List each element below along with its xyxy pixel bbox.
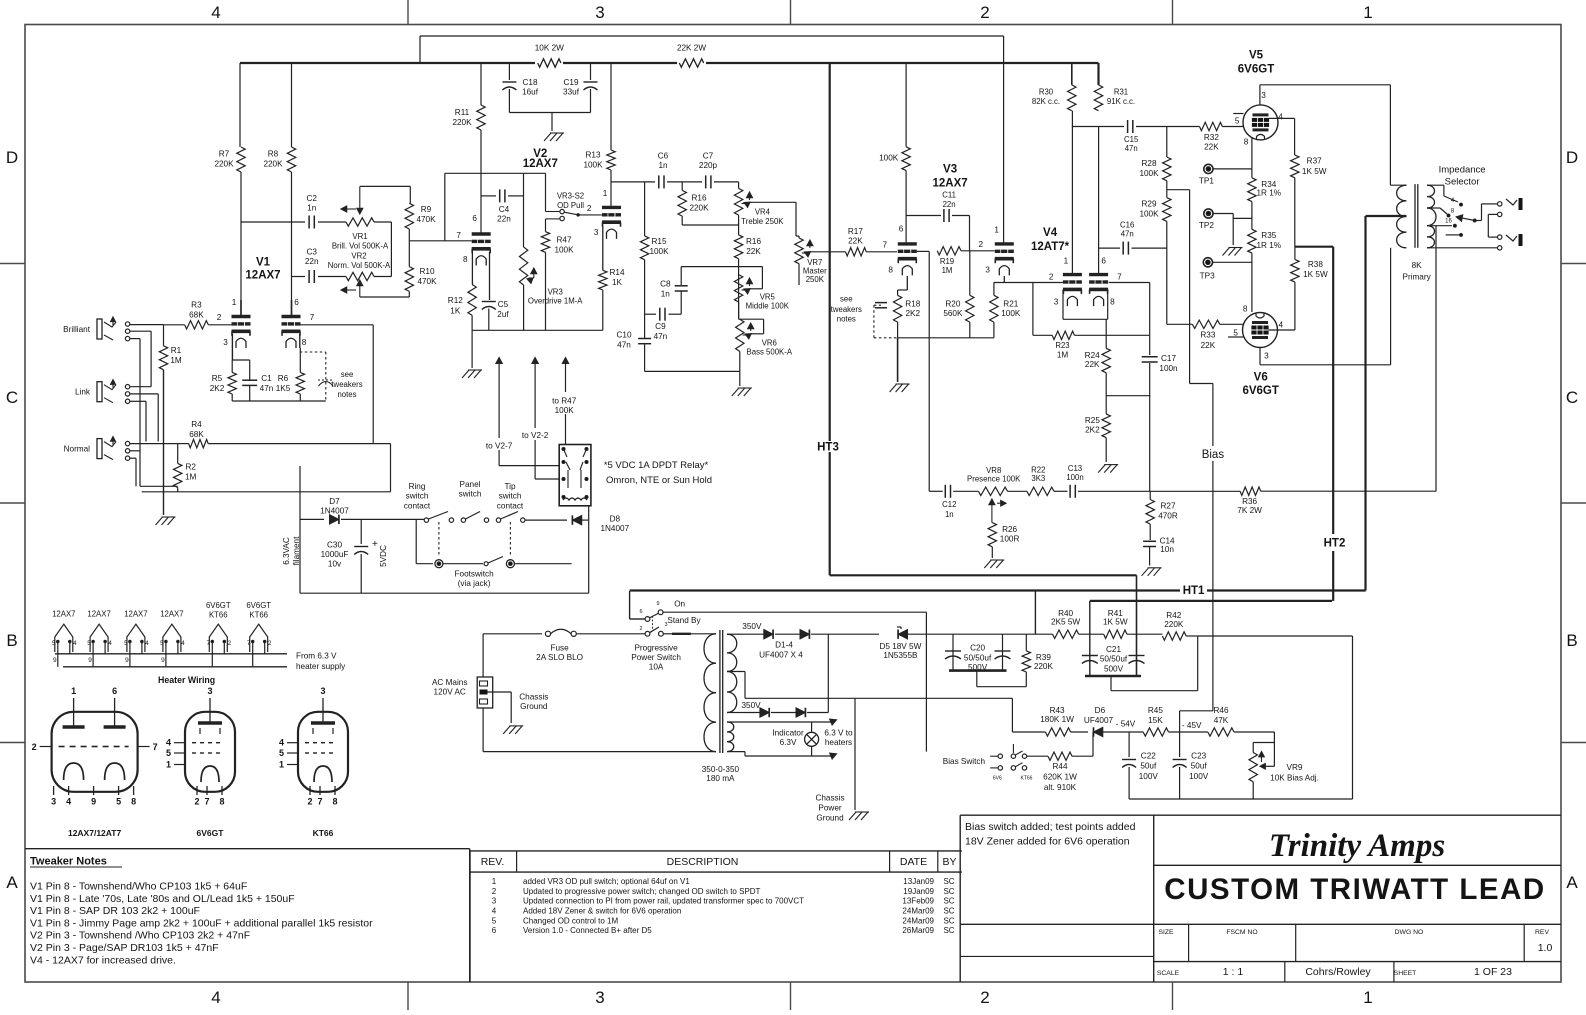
svg-text:1R 1%: 1R 1% (1257, 189, 1282, 198)
svg-text:V4: V4 (1043, 227, 1058, 239)
svg-text:KT66: KT66 (313, 828, 334, 838)
svg-text:5: 5 (166, 748, 171, 758)
svg-text:R46: R46 (1213, 706, 1228, 715)
svg-text:added VR3 OD pull switch; opti: added VR3 OD pull switch; optional 64uf … (523, 877, 690, 886)
svg-text:Chassis: Chassis (519, 693, 548, 702)
svg-text:5VDC: 5VDC (379, 545, 388, 567)
svg-text:C6: C6 (658, 152, 669, 161)
svg-text:R26: R26 (1002, 525, 1017, 534)
svg-text:33uf: 33uf (563, 88, 580, 97)
svg-text:16uf: 16uf (522, 88, 539, 97)
svg-text:1: 1 (279, 760, 284, 770)
svg-text:C19: C19 (563, 78, 578, 87)
svg-text:1: 1 (232, 298, 237, 307)
svg-text:220K: 220K (1034, 662, 1054, 671)
svg-text:1: 1 (994, 226, 999, 235)
svg-text:12AX7: 12AX7 (160, 610, 183, 619)
svg-text:4: 4 (73, 640, 77, 647)
svg-text:3: 3 (320, 686, 325, 696)
svg-text:47n: 47n (260, 384, 274, 393)
svg-text:3: 3 (595, 988, 604, 1007)
svg-text:4: 4 (181, 640, 185, 647)
svg-text:C7: C7 (703, 152, 714, 161)
svg-text:1: 1 (1363, 988, 1372, 1007)
svg-text:Changed OD control to 1M: Changed OD control to 1M (523, 916, 618, 925)
svg-text:6: 6 (472, 214, 477, 223)
svg-text:R12: R12 (448, 296, 463, 305)
svg-text:SC: SC (943, 897, 954, 906)
svg-text:- 45V: - 45V (1182, 721, 1202, 730)
svg-text:100K: 100K (1139, 169, 1159, 178)
svg-text:C: C (1566, 388, 1578, 407)
svg-text:V5: V5 (1249, 50, 1264, 62)
svg-text:TP3: TP3 (1200, 271, 1215, 280)
svg-text:26Mar09: 26Mar09 (902, 926, 934, 935)
svg-text:alt. 910K: alt. 910K (1044, 783, 1077, 792)
svg-text:3: 3 (664, 622, 667, 628)
svg-text:1: 1 (1363, 3, 1372, 22)
svg-text:R2: R2 (185, 463, 196, 472)
svg-text:8: 8 (131, 797, 136, 807)
svg-text:Updated connection to PI from: Updated connection to PI from power rail… (523, 897, 804, 906)
svg-text:2: 2 (32, 742, 37, 752)
svg-text:SC: SC (943, 877, 954, 886)
svg-text:8: 8 (332, 797, 337, 807)
svg-text:R37: R37 (1307, 157, 1322, 166)
svg-text:3: 3 (492, 897, 497, 906)
svg-text:SCALE: SCALE (1157, 970, 1180, 977)
svg-text:5: 5 (160, 640, 164, 647)
svg-text:7: 7 (247, 640, 251, 647)
svg-text:47n: 47n (1121, 229, 1134, 238)
svg-text:R16: R16 (746, 237, 761, 246)
svg-text:R29: R29 (1141, 200, 1156, 209)
svg-text:C16: C16 (1120, 220, 1134, 229)
svg-text:Bias: Bias (1202, 449, 1225, 461)
svg-text:C9: C9 (655, 322, 666, 331)
svg-text:8: 8 (463, 255, 468, 264)
svg-text:250K: 250K (806, 275, 825, 284)
svg-text:REV.: REV. (481, 856, 505, 868)
svg-text:350-0-350: 350-0-350 (702, 765, 740, 774)
svg-text:620K 1W: 620K 1W (1043, 773, 1077, 782)
svg-text:+: + (372, 539, 378, 550)
svg-text:R30: R30 (1039, 87, 1054, 96)
svg-text:Overdrive 1M-A: Overdrive 1M-A (528, 297, 583, 306)
svg-text:- 54V: - 54V (1116, 719, 1136, 728)
svg-text:1n: 1n (307, 204, 317, 213)
svg-text:heater supply: heater supply (296, 662, 346, 671)
svg-text:Panel: Panel (460, 480, 481, 489)
svg-text:C2: C2 (306, 194, 317, 203)
svg-text:12AX7/12AT7: 12AX7/12AT7 (68, 828, 122, 838)
svg-text:B: B (1566, 631, 1577, 650)
svg-text:82K c.c.: 82K c.c. (1032, 97, 1060, 106)
svg-text:R43: R43 (1050, 706, 1065, 715)
svg-text:VR2: VR2 (351, 252, 366, 261)
svg-text:1n: 1n (661, 290, 671, 299)
svg-text:Fuse: Fuse (550, 643, 569, 652)
svg-text:R27: R27 (1160, 501, 1175, 510)
svg-text:22n: 22n (305, 257, 319, 266)
svg-text:D7: D7 (329, 497, 340, 506)
svg-text:9: 9 (91, 797, 96, 807)
svg-text:to V2-2: to V2-2 (522, 431, 549, 440)
svg-text:180 mA: 180 mA (706, 774, 735, 783)
svg-text:C15: C15 (1124, 135, 1139, 144)
svg-text:1: 1 (492, 877, 497, 886)
svg-text:6: 6 (492, 926, 497, 935)
svg-text:switch: switch (459, 490, 482, 499)
svg-text:2: 2 (980, 988, 989, 1007)
svg-text:5: 5 (492, 916, 497, 925)
svg-text:3: 3 (51, 797, 56, 807)
svg-text:560K: 560K (943, 309, 963, 318)
svg-text:Primary: Primary (1402, 272, 1431, 281)
svg-text:13Jan09: 13Jan09 (903, 877, 934, 886)
svg-text:R25: R25 (1085, 416, 1100, 425)
svg-text:7: 7 (317, 797, 322, 807)
svg-text:9: 9 (88, 657, 92, 664)
svg-text:5: 5 (1233, 328, 1238, 337)
svg-text:10v: 10v (328, 559, 342, 568)
svg-text:(via jack): (via jack) (458, 579, 491, 588)
svg-text:C8: C8 (660, 280, 671, 289)
svg-text:Progressive: Progressive (634, 643, 678, 652)
svg-text:DATE: DATE (900, 856, 927, 868)
svg-text:HT2: HT2 (1324, 538, 1346, 550)
svg-text:Presence 100K: Presence 100K (967, 475, 1021, 484)
svg-text:V4 - 12AX7 for increased drive: V4 - 12AX7 for increased drive. (30, 954, 176, 966)
svg-text:R1: R1 (171, 346, 182, 355)
svg-text:UF4007 X 4: UF4007 X 4 (759, 650, 803, 659)
svg-text:6V6: 6V6 (993, 776, 1002, 782)
svg-text:10n: 10n (1160, 545, 1174, 554)
svg-text:24Mar09: 24Mar09 (902, 907, 934, 916)
svg-text:VR3: VR3 (548, 288, 563, 297)
svg-text:to V2-7: to V2-7 (486, 442, 513, 451)
svg-text:100V: 100V (1189, 772, 1209, 781)
svg-text:22K: 22K (1085, 360, 1100, 369)
svg-text:4: 4 (1279, 320, 1284, 329)
svg-text:220K: 220K (1164, 620, 1184, 629)
svg-text:1M: 1M (170, 356, 182, 365)
svg-text:D6: D6 (1095, 706, 1106, 715)
svg-text:REV: REV (1535, 929, 1549, 936)
svg-text:V1 Pin 8 - SAP DR 103 2k2 + 1: V1 Pin 8 - SAP DR 103 2k2 + 100uF (30, 905, 200, 917)
svg-text:filament: filament (292, 536, 301, 565)
svg-text:13Feb09: 13Feb09 (902, 897, 934, 906)
svg-text:7: 7 (206, 640, 210, 647)
svg-text:UF4007: UF4007 (1084, 716, 1114, 725)
svg-text:C12: C12 (942, 500, 956, 509)
svg-text:Tweaker Notes: Tweaker Notes (30, 856, 107, 868)
svg-text:SC: SC (943, 887, 954, 896)
svg-text:contact: contact (497, 501, 524, 510)
svg-text:470K: 470K (417, 277, 437, 286)
svg-text:3: 3 (207, 686, 212, 696)
svg-text:6V6GT: 6V6GT (206, 601, 231, 610)
svg-text:50/50uf: 50/50uf (1100, 655, 1128, 664)
svg-text:100K: 100K (879, 154, 899, 163)
svg-text:R47: R47 (556, 236, 571, 245)
svg-text:24Mar09: 24Mar09 (902, 916, 934, 925)
svg-text:R21: R21 (1003, 299, 1018, 308)
svg-text:1K: 1K (612, 278, 623, 287)
svg-text:22n: 22n (497, 215, 511, 224)
svg-text:Brill. Vol 500K-A: Brill. Vol 500K-A (332, 242, 389, 251)
svg-text:470K: 470K (416, 215, 436, 224)
svg-text:22K 2W: 22K 2W (677, 44, 706, 53)
svg-text:4: 4 (279, 738, 284, 748)
svg-text:500V: 500V (1104, 664, 1124, 673)
svg-text:SHEET: SHEET (1394, 970, 1417, 977)
svg-text:22K: 22K (1204, 143, 1219, 152)
svg-text:220K: 220K (214, 160, 234, 169)
svg-text:C30: C30 (327, 541, 342, 550)
svg-text:2: 2 (492, 887, 497, 896)
svg-text:D1-4: D1-4 (775, 641, 793, 650)
svg-text:R45: R45 (1148, 706, 1163, 715)
svg-text:4: 4 (66, 797, 71, 807)
svg-text:9: 9 (161, 657, 165, 664)
svg-text:2: 2 (587, 204, 592, 213)
svg-text:6.3 V to: 6.3 V to (824, 729, 853, 738)
svg-text:Chassis: Chassis (815, 794, 844, 803)
svg-text:R33: R33 (1200, 331, 1215, 340)
svg-text:1M: 1M (185, 473, 197, 482)
svg-text:Bias Switch: Bias Switch (943, 757, 986, 766)
svg-text:8: 8 (219, 797, 224, 807)
svg-text:On: On (674, 600, 685, 609)
svg-text:A: A (6, 873, 18, 892)
svg-text:Footswitch: Footswitch (455, 569, 495, 578)
svg-text:8: 8 (302, 338, 307, 347)
svg-text:1N4007: 1N4007 (600, 524, 629, 533)
svg-text:V1 Pin 8 - Jimmy Page amp 2k2: V1 Pin 8 - Jimmy Page amp 2k2 + 100uF + … (30, 917, 373, 929)
svg-text:A: A (1566, 873, 1578, 892)
svg-text:HT3: HT3 (817, 441, 839, 453)
svg-text:350V: 350V (742, 701, 762, 710)
svg-text:Ground: Ground (520, 702, 548, 711)
svg-text:8: 8 (1110, 297, 1115, 306)
svg-text:1R 1%: 1R 1% (1257, 241, 1282, 250)
svg-text:R38: R38 (1308, 260, 1323, 269)
svg-text:8K: 8K (1412, 261, 1423, 270)
svg-text:47K: 47K (1214, 716, 1229, 725)
svg-text:R34: R34 (1261, 180, 1276, 189)
svg-text:R24: R24 (1085, 351, 1100, 360)
svg-text:R8: R8 (268, 150, 279, 159)
svg-text:2: 2 (980, 3, 989, 22)
svg-text:Power: Power (818, 804, 841, 813)
svg-text:1N4007: 1N4007 (320, 507, 349, 516)
svg-text:C11: C11 (942, 190, 956, 199)
svg-text:Normal: Normal (64, 445, 91, 454)
svg-text:1M: 1M (1057, 351, 1069, 360)
svg-text:1K 5W: 1K 5W (1103, 617, 1128, 626)
svg-text:notes: notes (837, 315, 856, 324)
svg-text:2: 2 (639, 626, 642, 632)
svg-text:4: 4 (492, 907, 497, 916)
svg-text:CUSTOM TRIWATT LEAD: CUSTOM TRIWATT LEAD (1164, 873, 1545, 906)
svg-text:C13: C13 (1068, 464, 1082, 473)
svg-text:220K: 220K (689, 204, 709, 213)
svg-text:4: 4 (211, 3, 220, 22)
svg-text:12AX7: 12AX7 (52, 610, 75, 619)
svg-text:Treble 250K: Treble 250K (741, 217, 784, 226)
svg-text:Updated to progressive power s: Updated to progressive power switch; cha… (523, 887, 761, 896)
svg-text:12AX7: 12AX7 (933, 178, 968, 190)
svg-text:100n: 100n (1066, 473, 1083, 482)
svg-text:47n: 47n (617, 341, 631, 350)
svg-text:7: 7 (1117, 273, 1122, 282)
svg-text:Version 1.0 - Connected B+ aft: Version 1.0 - Connected B+ after D5 (523, 926, 652, 935)
svg-text:7K 2W: 7K 2W (1237, 506, 1262, 515)
svg-text:R11: R11 (455, 108, 470, 117)
svg-text:2A SLO BLO: 2A SLO BLO (536, 653, 583, 662)
svg-text:VR6: VR6 (762, 338, 777, 347)
svg-text:6.3VAC: 6.3VAC (282, 537, 291, 565)
svg-text:5: 5 (87, 640, 91, 647)
svg-text:22K: 22K (848, 237, 863, 246)
svg-text:DESCRIPTION: DESCRIPTION (667, 856, 739, 868)
svg-text:100K: 100K (1139, 210, 1159, 219)
svg-text:350V: 350V (742, 622, 762, 631)
svg-text:8: 8 (1243, 304, 1248, 313)
svg-text:5: 5 (52, 640, 56, 647)
svg-text:C20: C20 (970, 644, 985, 653)
svg-text:Norm. Vol 500K-A: Norm. Vol 500K-A (328, 261, 391, 270)
svg-text:Middle 100K: Middle 100K (746, 302, 790, 311)
svg-text:Selector: Selector (1445, 177, 1480, 188)
svg-text:1n: 1n (945, 510, 954, 519)
svg-text:47n: 47n (1125, 144, 1138, 153)
svg-text:3: 3 (223, 338, 228, 347)
svg-text:SC: SC (943, 907, 954, 916)
svg-text:VR3-S2: VR3-S2 (557, 192, 584, 201)
svg-text:R23: R23 (1055, 341, 1069, 350)
svg-text:R36: R36 (1242, 497, 1257, 506)
svg-text:4: 4 (211, 988, 220, 1007)
svg-text:100K: 100K (1001, 309, 1021, 318)
svg-text:*5 VDC 1A DPDT Relay*: *5 VDC 1A DPDT Relay* (604, 460, 709, 471)
svg-text:R7: R7 (219, 150, 230, 159)
svg-text:50/50uf: 50/50uf (964, 653, 992, 662)
svg-text:SIZE: SIZE (1158, 929, 1174, 936)
svg-text:100K: 100K (649, 247, 669, 256)
svg-text:C4: C4 (499, 205, 510, 214)
svg-text:V2 Pin 3 - Townshend /Who CP10: V2 Pin 3 - Townshend /Who CP103 2k2 + 47… (30, 930, 250, 942)
svg-text:R44: R44 (1052, 762, 1067, 771)
svg-text:6V6GT: 6V6GT (246, 601, 271, 610)
svg-text:Bass 500K-A: Bass 500K-A (747, 348, 793, 357)
svg-text:100K: 100K (555, 406, 575, 415)
svg-text:1K 5W: 1K 5W (1303, 270, 1328, 279)
svg-text:6V6GT: 6V6GT (197, 828, 225, 838)
svg-text:10A: 10A (649, 663, 664, 672)
svg-text:9: 9 (53, 657, 57, 664)
svg-text:4: 4 (108, 640, 112, 647)
svg-text:1: 1 (603, 189, 608, 198)
svg-text:Indicator: Indicator (772, 729, 804, 738)
svg-text:22n: 22n (943, 200, 956, 209)
svg-text:10K Bias Adj.: 10K Bias Adj. (1270, 774, 1319, 783)
svg-text:180K 1W: 180K 1W (1040, 715, 1074, 724)
svg-text:D: D (6, 148, 18, 167)
svg-text:C1: C1 (261, 374, 272, 383)
svg-text:tweakers: tweakers (331, 380, 362, 389)
svg-text:R9: R9 (421, 205, 432, 214)
svg-text:heaters: heaters (825, 738, 852, 747)
svg-text:Brilliant: Brilliant (63, 325, 91, 334)
svg-text:C10: C10 (616, 331, 631, 340)
svg-text:Link: Link (75, 388, 91, 397)
svg-text:3: 3 (594, 228, 599, 237)
svg-text:D: D (1566, 148, 1578, 167)
svg-text:AC Mains: AC Mains (432, 678, 468, 687)
svg-text:6: 6 (1101, 257, 1106, 266)
svg-text:100K: 100K (554, 246, 574, 255)
svg-text:1N5355B: 1N5355B (883, 651, 918, 660)
svg-text:100V: 100V (1139, 772, 1159, 781)
svg-text:Tip: Tip (504, 482, 516, 491)
svg-text:2: 2 (268, 640, 272, 647)
svg-text:R19: R19 (940, 257, 954, 266)
svg-text:R17: R17 (848, 227, 863, 236)
svg-text:R15: R15 (651, 237, 666, 246)
svg-text:D8: D8 (610, 514, 621, 523)
svg-text:R4: R4 (191, 420, 202, 429)
svg-text:notes: notes (337, 390, 356, 399)
svg-text:3: 3 (1261, 91, 1266, 100)
svg-text:1: 1 (1064, 257, 1069, 266)
svg-text:R3: R3 (191, 301, 202, 310)
svg-text:5: 5 (116, 797, 121, 807)
svg-text:R13: R13 (585, 151, 600, 160)
svg-text:8: 8 (1244, 138, 1249, 147)
svg-text:220K: 220K (452, 118, 472, 127)
svg-text:1K: 1K (450, 307, 461, 316)
svg-text:Ring: Ring (409, 482, 426, 491)
svg-text:15K: 15K (1148, 716, 1163, 725)
svg-text:22K: 22K (1201, 341, 1216, 350)
svg-text:Stand By: Stand By (667, 616, 701, 625)
svg-text:V2 Pin 3 - Page/SAP DR103 1k5: V2 Pin 3 - Page/SAP DR103 1k5 + 47nF (30, 942, 219, 954)
svg-text:5: 5 (1235, 116, 1240, 125)
svg-text:Added 18V Zener & switch for 6: Added 18V Zener & switch for 6V6 operati… (523, 907, 681, 916)
svg-text:SC: SC (943, 926, 954, 935)
svg-text:4: 4 (145, 640, 149, 647)
svg-text:R31: R31 (1114, 87, 1128, 96)
svg-text:7: 7 (456, 231, 461, 240)
svg-text:12AX7: 12AX7 (245, 270, 280, 282)
svg-text:V1 Pin 8 - Late '70s, Late '80: V1 Pin 8 - Late '70s, Late '80s and OL/L… (30, 893, 295, 905)
svg-text:Bias switch added; test points: Bias switch added; test points added (965, 821, 1136, 833)
svg-text:tweakers: tweakers (831, 305, 862, 314)
svg-text:VR4: VR4 (755, 208, 771, 217)
svg-text:KT66: KT66 (209, 611, 228, 620)
svg-text:6.3V: 6.3V (780, 738, 797, 747)
svg-text:91K c.c.: 91K c.c. (1107, 97, 1135, 106)
svg-text:DWG NO: DWG NO (1395, 929, 1424, 936)
svg-text:5: 5 (279, 748, 284, 758)
svg-text:6V6GT: 6V6GT (1238, 63, 1274, 75)
svg-text:TP2: TP2 (1199, 221, 1214, 230)
svg-text:6V6GT: 6V6GT (1242, 385, 1278, 397)
svg-text:1n: 1n (658, 161, 668, 170)
svg-text:C22: C22 (1141, 752, 1156, 761)
